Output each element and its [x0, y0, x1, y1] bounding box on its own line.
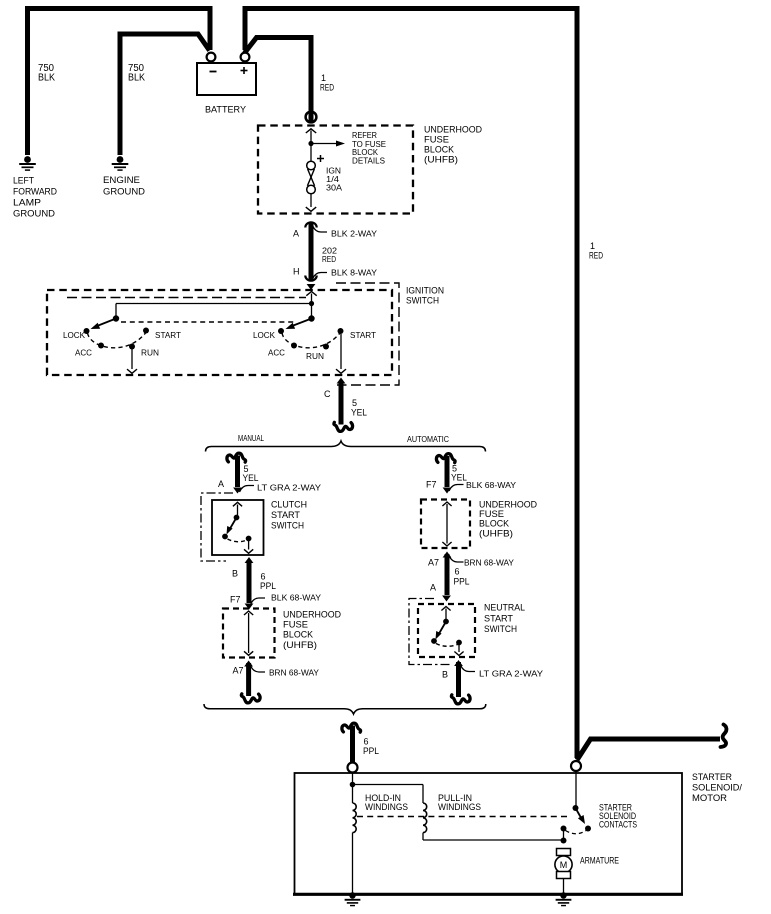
svg-text:A: A — [430, 583, 436, 593]
wire battery positive to right trunk (1 RED) — [245, 9, 577, 759]
NSS output line + arrow — [458, 645, 460, 652]
svg-text:PPL: PPL — [363, 746, 379, 756]
UHFB3 internal arrows — [442, 502, 451, 506]
ground symbol hold-in — [349, 892, 355, 898]
svg-text:LOCK: LOCK — [253, 331, 276, 340]
solenoid box bottom thick edge — [293, 893, 683, 896]
svg-text:GROUND: GROUND — [13, 209, 55, 220]
svg-text:SWITCH: SWITCH — [271, 521, 304, 532]
pigtail connector C wire end — [334, 422, 353, 431]
svg-text:ACC: ACC — [268, 349, 285, 358]
battery negative terminal — [207, 53, 216, 62]
svg-text:BLK: BLK — [38, 73, 55, 84]
CSS wiper arm — [230, 518, 237, 530]
pigtail connector solenoid feed top — [342, 723, 361, 732]
ignition switch S1 bold dashed box — [47, 290, 392, 375]
svg-text:BLK 68-WAY: BLK 68-WAY — [466, 480, 516, 490]
battery B1 — [197, 63, 256, 95]
hook BLK 68-WAY automatic — [449, 485, 464, 492]
svg-text:NEUTRAL: NEUTRAL — [484, 603, 525, 614]
connector ring at UHFB feed — [306, 112, 317, 123]
svg-text:WINDINGS: WINDINGS — [365, 802, 408, 812]
CSS pivot dot — [234, 515, 240, 521]
starter solenoid motor box — [295, 773, 683, 894]
hook BRN 68-WAY automatic — [449, 556, 464, 563]
left contact LOCK — [84, 328, 90, 334]
wire 6 PPL automatic pin A7 — [443, 552, 452, 558]
ground symbol LEFT FORWARD LAMP GROUND — [24, 156, 31, 163]
contact to armature line — [563, 829, 565, 841]
clutch start switch solid box — [212, 500, 264, 555]
right contact START — [338, 328, 344, 334]
svg-text:B: B — [442, 670, 448, 680]
svg-text:BLK 2-WAY: BLK 2-WAY — [331, 229, 377, 239]
right wiper pivot dot — [308, 315, 314, 321]
hook BLK 68-WAY manual — [251, 598, 266, 605]
CSS contact dot lower-left — [222, 534, 228, 540]
junction dot feed upper — [309, 301, 314, 306]
contact pivot dot — [573, 805, 579, 811]
svg-text:6: 6 — [455, 567, 460, 577]
svg-text:YEL: YEL — [451, 473, 467, 483]
left RUN output line + arrow — [131, 349, 133, 369]
svg-text:BLK: BLK — [128, 73, 145, 84]
wire BRN manual pin A7 — [244, 661, 253, 667]
fuse IGN 1/4 30A symbol — [307, 161, 316, 170]
connector ring 6 PPL at solenoid — [348, 763, 358, 773]
svg-text:CLUTCH: CLUTCH — [271, 500, 307, 511]
ignition feed arrow up inside box — [306, 292, 316, 296]
svg-text:SWITCH: SWITCH — [406, 296, 439, 307]
clutch start switch dash-dot outline — [201, 493, 233, 561]
bottom brace — [204, 704, 486, 714]
svg-text:H: H — [293, 267, 300, 277]
ignition switch outer thin dashed offset box — [336, 283, 399, 385]
svg-text:YEL: YEL — [351, 408, 367, 418]
svg-text:F7: F7 — [426, 480, 437, 490]
connector ring 1 RED at solenoid — [571, 761, 581, 771]
svg-text:A: A — [218, 479, 224, 489]
UHFB internal circuit line — [310, 131, 312, 162]
svg-text:RED: RED — [320, 83, 334, 93]
wire 202 RED from UHFB pin A to ignition switch pin H — [309, 222, 314, 280]
right wiper arm to LOCK — [292, 319, 312, 327]
underhood fuse block UHFB dashed box — [258, 126, 413, 214]
left contact START — [143, 328, 149, 334]
svg-text:START: START — [350, 331, 376, 340]
svg-text:(UHFB): (UHFB) — [424, 155, 458, 166]
NSS contact dot lower-right — [456, 640, 462, 646]
NSS wiper arm — [439, 622, 447, 635]
svg-text:5: 5 — [352, 398, 357, 408]
armature motor M1 lower brush block — [557, 872, 571, 879]
wire LT GRA automatic pin B — [454, 660, 463, 666]
junction dot hold-in/pull-in — [350, 782, 356, 788]
left contact ACC — [98, 343, 104, 349]
right contact RUN — [323, 344, 329, 350]
svg-text:ARMATURE: ARMATURE — [580, 856, 619, 866]
ground dot armature — [561, 893, 567, 899]
hold-in winding L1 — [353, 803, 357, 833]
hold-in winding to ground line — [352, 833, 354, 894]
wire 6 PPL to starter solenoid — [350, 726, 355, 763]
START output line + arrow down — [340, 334, 342, 369]
svg-text:RUN: RUN — [306, 352, 324, 361]
wedge into ignition switch box — [307, 284, 316, 290]
svg-text:6: 6 — [364, 737, 369, 747]
CSS dashed arc — [228, 539, 248, 542]
CSS internal feed arrow — [233, 502, 242, 506]
battery positive terminal — [241, 53, 250, 62]
svg-text:STARTER: STARTER — [692, 772, 732, 783]
svg-text:SOLENOID/: SOLENOID/ — [692, 783, 742, 794]
wire 5 YEL manual branch — [235, 456, 240, 488]
right contact ACC — [291, 343, 297, 349]
svg-text:START: START — [155, 331, 181, 340]
svg-text:(UHFB): (UHFB) — [479, 529, 513, 540]
junction dot pull-in to armature — [561, 838, 567, 844]
battery plus sign — [241, 70, 248, 72]
bus line to left switch half — [116, 303, 312, 305]
contact dashed arc — [566, 831, 587, 834]
ground symbol ENGINE GROUND — [117, 156, 124, 163]
svg-text:ACC: ACC — [75, 349, 92, 358]
feed line from 1 RED ring to contacts — [575, 771, 577, 808]
wire 6 PPL manual pin B — [245, 557, 254, 563]
svg-text:START: START — [271, 510, 300, 521]
svg-text:LT GRA 2-WAY: LT GRA 2-WAY — [257, 483, 321, 493]
ignition switch inner thin dashed line — [67, 297, 306, 299]
contact dot right — [585, 826, 591, 832]
pull-in winding lower line — [422, 833, 424, 840]
wire engine-ground to battery negative (750 BLK) — [120, 34, 210, 155]
svg-text:BLK 8-WAY: BLK 8-WAY — [331, 268, 377, 278]
neutral start switch dash-dot outline — [409, 599, 452, 665]
underhood fuse block 3 dashed box — [421, 500, 470, 549]
svg-text:LT GRA 2-WAY: LT GRA 2-WAY — [479, 669, 543, 679]
mechanical coupling dashed line — [121, 321, 295, 323]
pigtail connector automatic branch top — [436, 454, 455, 463]
hook BLK 2-WAY — [313, 226, 328, 233]
armature motor M1 body — [555, 856, 572, 873]
svg-text:CONTACTS: CONTACTS — [599, 820, 637, 830]
NSS contact dot lower-left — [431, 638, 437, 644]
hook LT GRA 2-WAY — [240, 486, 255, 493]
svg-text:RUN: RUN — [141, 349, 159, 358]
hook BLK 8-WAY — [313, 273, 328, 280]
junction dot in UHFB — [308, 141, 313, 146]
squiggle wire-continues symbol — [721, 725, 727, 748]
pigtail connector automatic branch bottom — [451, 695, 470, 704]
svg-text:A7: A7 — [233, 666, 244, 676]
right contact arc dashed — [282, 333, 340, 348]
top brace — [206, 441, 486, 452]
ignition feed line — [311, 294, 313, 319]
svg-text:BLOCK: BLOCK — [283, 630, 314, 641]
pigtail connector manual branch bottom — [241, 694, 260, 703]
armature motor M1 upper brush block — [557, 849, 571, 856]
CSS contact dot lower-right — [246, 536, 252, 542]
underhood fuse block 2 dashed box — [223, 609, 275, 658]
armature to ground line — [563, 879, 565, 895]
wire 5 YEL automatic — [445, 456, 450, 487]
solenoid contact blade arrow — [576, 808, 583, 820]
UHFB2 internal arrows — [244, 611, 253, 615]
svg-text:30A: 30A — [326, 184, 343, 193]
svg-text:GROUND: GROUND — [103, 187, 145, 198]
connector cap pin H — [305, 276, 316, 281]
svg-text:PPL: PPL — [454, 577, 470, 587]
svg-text:START: START — [484, 614, 513, 625]
left contact RUN — [129, 344, 135, 350]
branch line to pull-in winding — [353, 784, 424, 786]
svg-text:BRN 68-WAY: BRN 68-WAY — [464, 558, 514, 568]
arrow REFER TO FUSE BLOCK DETAILS — [311, 143, 336, 145]
svg-text:RED: RED — [589, 251, 603, 261]
svg-text:PPL: PPL — [260, 581, 276, 591]
pull-in winding L2 — [423, 803, 427, 833]
left contact arc dashed — [88, 333, 146, 348]
left wiper arm to LOCK — [97, 319, 116, 327]
ground symbol armature — [560, 892, 566, 898]
wire 1 RED branch to fusible link (squiggle) — [577, 739, 720, 760]
mechanical link dashed line windings to contacts — [357, 816, 571, 818]
svg-text:SWITCH: SWITCH — [484, 624, 517, 635]
neutral start switch dashed box — [418, 604, 475, 657]
UHFB internal line lower + arrow down — [310, 194, 312, 207]
battery minus sign — [210, 71, 217, 73]
svg-text:B: B — [232, 569, 238, 579]
svg-text:WINDINGS: WINDINGS — [438, 802, 481, 812]
fuse plus mark — [317, 158, 324, 160]
svg-text:A7: A7 — [428, 558, 439, 568]
svg-text:BATTERY: BATTERY — [205, 105, 247, 116]
svg-text:MOTOR: MOTOR — [692, 793, 727, 804]
feed line from 6 PPL ring into box — [352, 773, 354, 804]
connector cap pin A — [305, 222, 316, 227]
pigtail connector manual branch top — [227, 453, 246, 462]
wire battery positive to underhood fuse block (1 RED) — [245, 38, 312, 124]
svg-text:LOCK: LOCK — [63, 331, 86, 340]
CSS output line + arrow — [248, 541, 250, 550]
svg-text:RED: RED — [322, 254, 336, 264]
svg-text:AUTOMATIC: AUTOMATIC — [407, 434, 449, 444]
svg-text:C: C — [324, 389, 331, 399]
left wiper pivot dot — [113, 315, 119, 321]
hook LT GRA 2-WAY automatic — [461, 665, 476, 672]
svg-text:LEFT: LEFT — [13, 176, 34, 187]
NSS pivot dot — [443, 619, 449, 625]
svg-text:(UHFB): (UHFB) — [283, 640, 317, 651]
right contact LOCK — [278, 328, 284, 334]
svg-text:6: 6 — [261, 572, 266, 582]
svg-text:1: 1 — [590, 241, 595, 251]
svg-text:F7: F7 — [230, 595, 241, 605]
svg-text:DETAILS: DETAILS — [352, 157, 385, 166]
svg-text:A: A — [293, 229, 299, 239]
hook BRN 68-WAY manual — [251, 666, 266, 673]
NSS internal feed arrow — [441, 607, 450, 611]
svg-text:ENGINE: ENGINE — [103, 175, 140, 186]
svg-text:LAMP: LAMP — [13, 198, 41, 209]
svg-text:BLK 68-WAY: BLK 68-WAY — [271, 593, 321, 603]
NSS dashed arc — [436, 644, 458, 647]
svg-text:FORWARD: FORWARD — [13, 187, 57, 198]
wire 5 YEL from ignition switch pin C — [337, 378, 346, 384]
svg-text:M: M — [560, 860, 568, 870]
svg-text:MANUAL: MANUAL — [238, 433, 264, 443]
contact dot left — [561, 826, 567, 832]
svg-text:YEL: YEL — [243, 473, 259, 483]
wire left-forward-lamp-ground to battery negative (750 BLK) — [28, 9, 211, 156]
svg-text:BRN 68-WAY: BRN 68-WAY — [269, 668, 319, 678]
ground dot hold-in — [350, 893, 356, 899]
svg-text:REFER: REFER — [352, 131, 377, 140]
svg-text:1: 1 — [321, 73, 326, 83]
UHFB internal feed arrow up — [306, 129, 316, 133]
